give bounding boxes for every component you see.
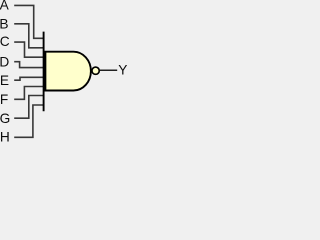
svg-text:F: F <box>0 92 8 107</box>
svg-text:B: B <box>0 17 8 32</box>
svg-text:C: C <box>0 34 10 49</box>
svg-text:Y: Y <box>118 62 127 77</box>
svg-text:E: E <box>0 73 9 88</box>
svg-text:H: H <box>0 130 10 143</box>
svg-text:A: A <box>0 0 10 13</box>
svg-text:G: G <box>0 111 10 126</box>
svg-text:D: D <box>0 55 9 70</box>
